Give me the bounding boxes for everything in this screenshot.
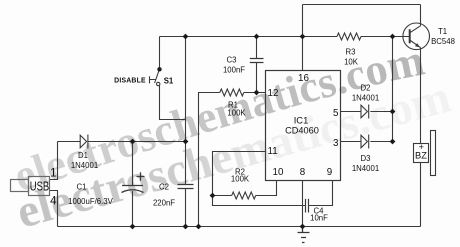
junction ground rail / C1 bbox=[130, 224, 136, 230]
value 1N4001 (D3) bbox=[352, 164, 379, 173]
svg-text:S1: S1 bbox=[164, 76, 174, 85]
wire R2 leads bbox=[213, 181, 277, 196]
wire base node vertical bbox=[392, 37, 394, 142]
wire C2 bottom bbox=[185, 189, 187, 227]
junction ground rail / pin8 ground point bbox=[300, 224, 306, 230]
value 100nF (C3) bbox=[223, 66, 245, 75]
junction D1 rail / C1 branch bbox=[130, 139, 136, 145]
junction R3 / transistor base node bbox=[390, 34, 396, 40]
svg-text:10: 10 bbox=[273, 167, 284, 178]
value 1000uF/6.3V (C1) bbox=[68, 197, 113, 206]
svg-text:1N4001: 1N4001 bbox=[352, 164, 379, 173]
svg-text:100nF: 100nF bbox=[223, 66, 245, 75]
transistor T1 bbox=[393, 5, 430, 144]
diode D3 bbox=[361, 135, 369, 149]
value 1N4001 (D1) bbox=[71, 161, 98, 170]
wire S1 lower branch bbox=[160, 85, 186, 119]
label D1 bbox=[78, 151, 88, 160]
svg-text:BC548: BC548 bbox=[431, 37, 455, 46]
value CD4060 (IC1) bbox=[285, 125, 319, 135]
label C4 bbox=[314, 206, 325, 215]
switch S1 top contact bbox=[157, 67, 161, 71]
watermark upper bbox=[8, 35, 429, 202]
wire S1 upper branch bbox=[159, 37, 161, 68]
wire USB pin1 bbox=[50, 142, 58, 180]
capacitor C4 bbox=[306, 199, 309, 213]
svg-text:1N4001: 1N4001 bbox=[71, 161, 98, 170]
pin number 10 bbox=[273, 167, 284, 178]
label D3 bbox=[361, 154, 371, 163]
diode D2 bbox=[361, 105, 369, 119]
switch S1 bbox=[150, 69, 160, 86]
svg-text:4: 4 bbox=[50, 196, 57, 208]
junction D1 rail / supply vertical bbox=[183, 139, 189, 145]
capacitor C2 bbox=[178, 185, 194, 189]
label DISABLE bbox=[114, 77, 146, 84]
svg-text:220nF: 220nF bbox=[153, 199, 175, 208]
svg-text:CD4060: CD4060 bbox=[285, 125, 319, 135]
svg-text:100K: 100K bbox=[227, 109, 246, 118]
buzzer BZ bbox=[414, 131, 436, 227]
svg-text:R3: R3 bbox=[346, 48, 356, 57]
pin number 9 bbox=[327, 167, 332, 178]
svg-text:11: 11 bbox=[268, 146, 278, 157]
junction ground rail / R1 pulldown bbox=[196, 224, 202, 230]
wire C3 branch bbox=[256, 37, 258, 93]
svg-text:BZ: BZ bbox=[415, 151, 427, 161]
value 100K (R1) bbox=[227, 109, 246, 118]
junction ground rail / C2 bbox=[183, 224, 189, 230]
wire top positive rail bbox=[160, 36, 393, 38]
wire C1 branch bbox=[132, 142, 134, 227]
pin number 12 bbox=[268, 88, 279, 99]
resistor R2 bbox=[232, 192, 256, 199]
junction supply rail / C3 branch bbox=[254, 34, 260, 40]
wire pin12 to R1 and down to ground bbox=[199, 93, 266, 227]
USB connector bbox=[11, 177, 50, 196]
label D2 bbox=[361, 83, 371, 92]
value BC548 (T1) bbox=[431, 37, 455, 46]
wire pin16 vertical bbox=[302, 5, 304, 71]
label R1 bbox=[228, 101, 238, 110]
svg-text:1N4001: 1N4001 bbox=[352, 93, 379, 102]
svg-text:T1: T1 bbox=[438, 27, 447, 36]
label BZ polarity plus bbox=[419, 142, 424, 152]
label T1 bbox=[438, 27, 447, 36]
wire pin8 to ground bbox=[302, 181, 304, 227]
value 1N4001 (D2) bbox=[352, 93, 379, 102]
capacitor C3 bbox=[250, 59, 264, 63]
svg-text:10nF: 10nF bbox=[310, 213, 328, 222]
ground symbol bbox=[298, 227, 310, 243]
svg-text:10K: 10K bbox=[344, 58, 359, 67]
value 10K (R3) bbox=[344, 58, 359, 67]
svg-text:5: 5 bbox=[333, 108, 339, 119]
wire supply vertical to C2 bbox=[185, 37, 187, 185]
wire C4 net bbox=[213, 181, 333, 206]
pin number 16 bbox=[298, 73, 309, 84]
svg-text:1: 1 bbox=[50, 167, 56, 179]
node A junction pin11 / R2 / C4 bbox=[210, 193, 216, 199]
value 220nF (C2) bbox=[153, 199, 175, 208]
svg-text:D2: D2 bbox=[361, 83, 371, 92]
wire D1 rail bbox=[58, 141, 186, 143]
svg-text:USB: USB bbox=[30, 180, 50, 194]
junction supply rail / pin16 / collector rail bbox=[300, 34, 306, 40]
svg-text:9: 9 bbox=[327, 167, 332, 178]
label R2 bbox=[235, 167, 245, 176]
svg-text:3: 3 bbox=[333, 138, 339, 149]
wire pin11 loop bbox=[213, 152, 266, 196]
node pin12 / R1 / C3 bbox=[254, 90, 260, 96]
svg-text:D3: D3 bbox=[361, 154, 371, 163]
svg-text:D1: D1 bbox=[78, 151, 88, 160]
label R3 bbox=[346, 48, 356, 57]
label C1 bbox=[77, 183, 87, 192]
svg-text:1000uF/6.3V: 1000uF/6.3V bbox=[68, 197, 113, 206]
resistor R1 bbox=[220, 89, 244, 96]
diode D1 bbox=[80, 135, 88, 149]
junction D3 cathode / base vertical bbox=[390, 139, 396, 145]
wire collector top rail bbox=[303, 4, 421, 6]
capacitor C1 electrolytic bbox=[122, 186, 144, 193]
wire bottom ground rail bbox=[58, 226, 421, 228]
svg-text:C3: C3 bbox=[227, 56, 237, 65]
pin number 4 (USB) bbox=[50, 196, 57, 208]
pin number 8 bbox=[300, 167, 306, 178]
junction supply rail / C2 branch bbox=[183, 34, 189, 40]
capacitor C1 plus sign bbox=[137, 172, 145, 180]
resistor R3 bbox=[337, 33, 361, 40]
svg-text:16: 16 bbox=[298, 73, 309, 84]
svg-text:C1: C1 bbox=[77, 183, 87, 192]
junction D2 cathode / base vertical bbox=[390, 109, 396, 115]
label C2 bbox=[159, 183, 169, 192]
label USB bbox=[30, 180, 50, 194]
pin number 11 bbox=[268, 146, 278, 157]
label BZ bbox=[415, 151, 427, 161]
svg-text:C2: C2 bbox=[159, 183, 169, 192]
svg-text:IC1: IC1 bbox=[294, 115, 309, 126]
IC1 box bbox=[266, 71, 341, 181]
wire pin3 to D3 bbox=[341, 141, 393, 143]
svg-text:12: 12 bbox=[268, 88, 279, 99]
label C3 bbox=[227, 56, 237, 65]
value 10nF (C4) bbox=[310, 213, 328, 222]
svg-text:DISABLE: DISABLE bbox=[114, 77, 146, 84]
label S1 bbox=[164, 76, 174, 85]
watermark lower bbox=[11, 71, 456, 239]
wire USB pin4 bbox=[50, 191, 58, 227]
pin number 3 bbox=[333, 138, 339, 149]
pin number 5 bbox=[333, 108, 339, 119]
wire pin5 to D2 bbox=[341, 111, 393, 113]
label IC1 bbox=[294, 115, 309, 126]
pin number 1 (USB) bbox=[50, 167, 56, 179]
value 100K (R2) bbox=[231, 174, 250, 183]
svg-text:8: 8 bbox=[300, 167, 306, 178]
svg-text:100K: 100K bbox=[231, 174, 250, 183]
